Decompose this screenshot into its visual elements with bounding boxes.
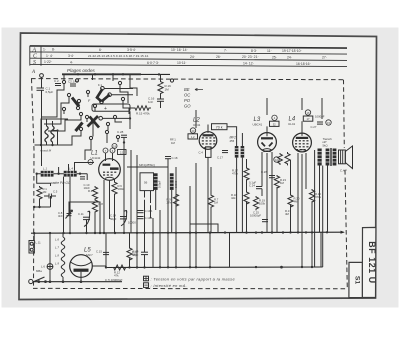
svg-text:4M: 4M bbox=[294, 200, 299, 204]
svg-text:8·: 8· bbox=[52, 47, 55, 51]
svg-text:GO: GO bbox=[184, 104, 191, 109]
junction dots on switch bar bbox=[77, 73, 160, 76]
wire L4 top column bbox=[301, 98, 303, 110]
svg-text:PO: PO bbox=[184, 98, 191, 103]
svg-text:1M: 1M bbox=[214, 201, 219, 205]
title box S1 bbox=[349, 262, 362, 297]
capacitor C20 bbox=[138, 217, 144, 219]
switch contact field bbox=[62, 79, 173, 140]
wire x168 column bbox=[167, 159, 169, 233]
capacitor C10 bbox=[80, 177, 85, 179]
wire MF1 right pin bbox=[150, 191, 152, 203]
wire C11 frame bbox=[69, 202, 100, 233]
svg-text:20: 20 bbox=[192, 129, 195, 133]
svg-text:A: A bbox=[32, 47, 37, 53]
tube L1 anode A bbox=[103, 164, 111, 166]
capacitor C19 bbox=[138, 211, 144, 213]
svg-text:1·: 1· bbox=[43, 47, 46, 51]
mains terminal bbox=[29, 279, 33, 283]
resistor R1 bbox=[37, 186, 42, 200]
transformer core bbox=[329, 148, 331, 166]
wire L3 cathode down bbox=[266, 153, 268, 233]
MF2 coil bars bbox=[235, 146, 244, 158]
pilot lamp bbox=[47, 264, 53, 270]
resistor R19 bbox=[253, 196, 258, 210]
svg-text:Amod M: Amod M bbox=[39, 149, 52, 153]
trimmer C14 bbox=[120, 210, 127, 226]
svg-text:S1: S1 bbox=[354, 276, 361, 285]
svg-text:L.7: L.7 bbox=[55, 246, 59, 250]
mains switch lever bbox=[34, 277, 45, 282]
svg-text:C.28: C.28 bbox=[117, 130, 124, 134]
tube L2 anode bbox=[203, 134, 214, 136]
note icon 1 bbox=[144, 276, 149, 281]
capacitor C28 bbox=[121, 135, 127, 152]
wire C15 column bbox=[105, 244, 107, 252]
resistor R16 bbox=[158, 80, 163, 95]
switch wiper 4 bbox=[76, 123, 83, 132]
svg-text:24·: 24· bbox=[190, 55, 195, 59]
tube L2 envelope bbox=[199, 132, 217, 150]
svg-text:C.11: C.11 bbox=[78, 212, 84, 216]
wire x262 lower bbox=[261, 189, 263, 196]
wire MF2 coil A down bbox=[236, 158, 238, 233]
wire R23 column bbox=[276, 187, 278, 233]
wire transfo prim down bbox=[327, 166, 329, 233]
tube L5 deflector arc bbox=[71, 262, 92, 266]
resistor R25 bbox=[278, 153, 283, 165]
svg-text:MBa: MBa bbox=[36, 269, 42, 273]
svg-text:L.11: L.11 bbox=[36, 241, 42, 245]
bottom-left mains wire bbox=[33, 281, 122, 283]
tube L3 cathode bbox=[263, 149, 272, 150]
boxed 17 bbox=[303, 116, 313, 121]
rule under row S bbox=[30, 64, 347, 66]
svg-text:F.1: F.1 bbox=[98, 83, 102, 87]
wire coil frame bbox=[35, 119, 71, 145]
svg-text:21·22·23·13·28·4·5·9·10·4·6·18: 21·22·23·13·28·4·5·9·10·4·6·18·7·19·15·1… bbox=[88, 54, 149, 58]
svg-text:2,1: 2,1 bbox=[120, 151, 124, 155]
wire coilB bottom bbox=[171, 190, 173, 233]
wire L2 cathode down bbox=[207, 157, 209, 233]
svg-text:C.18: C.18 bbox=[172, 156, 178, 160]
svg-text:25·: 25· bbox=[272, 55, 277, 59]
svg-text:6·0·7·3·: 6·0·7·3· bbox=[147, 61, 159, 65]
capacitor C2.1A bbox=[70, 84, 76, 86]
wire MF1 left pin bbox=[144, 191, 146, 198]
svg-text:42k: 42k bbox=[231, 196, 236, 200]
wire transfo mid down bbox=[322, 166, 324, 268]
wire L1 pins up bbox=[105, 153, 107, 161]
svg-text:L.9: L.9 bbox=[55, 262, 59, 266]
wire L4 anode up bbox=[301, 121, 303, 136]
svg-text:L.1: L.1 bbox=[43, 166, 47, 170]
boxed 1,2 bbox=[188, 134, 198, 139]
wire x314 column bbox=[314, 150, 316, 267]
svg-text:3nF: 3nF bbox=[58, 214, 63, 218]
junction dot heater bbox=[62, 280, 65, 283]
resistor R18 bbox=[244, 191, 249, 205]
svg-text:C.5: C.5 bbox=[53, 190, 58, 194]
svg-text:10· 16· 14·: 10· 16· 14· bbox=[171, 48, 188, 52]
svg-text:10000: 10000 bbox=[128, 221, 136, 225]
wire C26 column bbox=[271, 164, 273, 176]
table label divider bbox=[40, 46, 42, 66]
svg-text:50pF: 50pF bbox=[110, 217, 117, 221]
wire R1 bottom node bbox=[34, 206, 50, 208]
svg-text:10: 10 bbox=[275, 158, 278, 162]
wire coilA bottom bbox=[155, 190, 157, 210]
cadre top wires bbox=[37, 163, 94, 187]
svg-text:100k: 100k bbox=[118, 187, 125, 191]
wire L5 stem bbox=[80, 272, 82, 282]
wire L3 left pin down bbox=[261, 152, 263, 187]
svg-text:R.15 470k: R.15 470k bbox=[136, 112, 150, 116]
capacitor C5 bbox=[44, 194, 56, 199]
svg-text:455: 455 bbox=[230, 139, 235, 143]
circled 20 bbox=[190, 128, 195, 133]
wire R6 bottom bbox=[114, 196, 116, 233]
wire R14 column bbox=[129, 233, 131, 247]
resistor R24 bbox=[285, 152, 290, 165]
wire L1 pin1 bbox=[103, 180, 105, 233]
svg-text:1M: 1M bbox=[133, 253, 138, 257]
svg-text:1M: 1M bbox=[165, 88, 170, 92]
capacitor C2 bbox=[55, 84, 61, 86]
earth socket bbox=[29, 241, 34, 254]
wire x137 column bbox=[136, 155, 138, 267]
tube L1 anode B bbox=[110, 167, 119, 170]
switch wiper 3 bbox=[90, 117, 100, 128]
tube L3 anode bbox=[261, 137, 273, 139]
svg-text:R.8: R.8 bbox=[99, 202, 104, 206]
svg-text:0,5µF: 0,5µF bbox=[46, 90, 54, 94]
circled 7 bbox=[103, 148, 108, 153]
svg-text:100pF: 100pF bbox=[158, 180, 162, 188]
oscillator coil La bbox=[45, 126, 48, 142]
svg-text:1000pF: 1000pF bbox=[315, 115, 325, 119]
ground rect right riser wire bbox=[320, 232, 322, 267]
switch wiper 1 bbox=[72, 98, 79, 107]
svg-text:: Tension en volts par ra: : Tension en volts par rapport à la mass… bbox=[151, 277, 236, 282]
svg-text:C.HP: C.HP bbox=[340, 169, 347, 173]
note icon 2 bbox=[144, 283, 149, 288]
tube L4 cathode bbox=[298, 150, 307, 151]
circled 6 bbox=[110, 148, 115, 153]
svg-text:C.17: C.17 bbox=[217, 156, 223, 160]
svg-text:19·17·18·10·: 19·17·18·10· bbox=[282, 49, 302, 53]
svg-text:+: + bbox=[104, 106, 107, 112]
oscillator coil Lb bbox=[51, 126, 54, 142]
resistor R23 bbox=[274, 175, 279, 189]
svg-text:14· 12·: 14· 12· bbox=[243, 62, 254, 66]
trimmer C12 bbox=[66, 210, 73, 219]
resistor R20 bbox=[288, 194, 293, 208]
resistor R6 bbox=[112, 181, 117, 197]
svg-text:10·11·: 10·11· bbox=[177, 61, 187, 65]
wire x153 column bbox=[152, 218, 154, 267]
boxed 70k bbox=[212, 124, 228, 130]
wire 70k box to MF2 bbox=[227, 127, 237, 146]
svg-text:3·4·: 3·4· bbox=[68, 54, 74, 58]
wire L3 right pin down bbox=[271, 152, 273, 233]
tube L1 cathode bbox=[105, 177, 114, 178]
svg-text:C.4: C.4 bbox=[199, 151, 204, 155]
resistor R12 bbox=[112, 265, 127, 270]
trimmer C13 bbox=[83, 211, 90, 227]
tube L1 grid bbox=[103, 172, 116, 176]
tube L5 target bar bbox=[74, 269, 89, 272]
wire cadre right down bbox=[69, 177, 71, 233]
tube L4 anode bbox=[296, 137, 308, 139]
resistor R7 bbox=[208, 194, 213, 209]
cadre junction dots bbox=[36, 173, 38, 175]
circled 4 bbox=[88, 160, 93, 165]
junction dot L5 stem bbox=[80, 280, 83, 283]
chassis dashed right edge upper bbox=[343, 80, 346, 148]
junction dots on ground bus bbox=[105, 266, 313, 269]
svg-text:L.8: L.8 bbox=[55, 254, 59, 258]
heater coil L6-L9 bbox=[61, 237, 65, 277]
wire L2 anode up bbox=[207, 125, 209, 133]
switch wiring mesh bbox=[42, 75, 138, 161]
svg-text:10000pF: 10000pF bbox=[250, 214, 261, 218]
svg-text:BF 121 U: BF 121 U bbox=[367, 241, 377, 283]
cadre through wire bbox=[37, 173, 87, 175]
wire R6 top bbox=[114, 179, 116, 181]
wire L2 top column bbox=[195, 110, 197, 128]
wire MF2 coil B down bbox=[241, 158, 243, 233]
resistor R14 bbox=[127, 247, 132, 261]
circled 4 bbox=[272, 115, 277, 120]
MF1 coil bar B bbox=[170, 173, 174, 190]
svg-text:C.2: C.2 bbox=[54, 79, 59, 83]
tube L4 grid bbox=[295, 140, 309, 150]
wire to MF1 bbox=[127, 166, 168, 168]
svg-text:OC: OC bbox=[184, 93, 191, 98]
ground rect left riser wire bbox=[229, 233, 231, 267]
svg-text:26·: 26· bbox=[216, 55, 221, 59]
circled 10 bbox=[274, 157, 279, 162]
resistor R9 bbox=[173, 193, 178, 208]
svg-text:UBC41: UBC41 bbox=[253, 123, 263, 127]
svg-text:1M: 1M bbox=[43, 190, 48, 194]
tube L1 envelope bbox=[99, 159, 121, 181]
svg-text:47k: 47k bbox=[114, 274, 119, 278]
svg-text:11·: 11· bbox=[267, 49, 272, 53]
boxed 32 bbox=[270, 121, 280, 126]
circled 15 bbox=[326, 120, 331, 125]
title box BF 121 U bbox=[362, 227, 376, 297]
wire R9 column bbox=[175, 167, 177, 193]
wire antenna column bbox=[41, 98, 43, 166]
svg-text:C.19B: C.19B bbox=[145, 216, 153, 220]
svg-text:8·3·: 8·3· bbox=[251, 49, 257, 53]
svg-text:24·: 24· bbox=[287, 55, 292, 59]
capacitor C18 bbox=[165, 157, 171, 159]
svg-text:70 k: 70 k bbox=[216, 125, 223, 129]
capacitor C7 bbox=[141, 233, 148, 267]
svg-text:1·22·: 1·22· bbox=[44, 60, 52, 64]
svg-text:cadre PO GO: cadre PO GO bbox=[51, 181, 71, 185]
tube L2 grid bbox=[202, 137, 216, 144]
tube L2 cathode bbox=[204, 147, 213, 148]
MF1 coil bar A bbox=[154, 173, 158, 190]
chassis dashed bottom edge bbox=[33, 287, 347, 289]
wire L3 top column bbox=[266, 98, 268, 115]
capacitor C24 bbox=[256, 187, 262, 189]
svg-text:470k: 470k bbox=[315, 195, 322, 199]
svg-text:1M: 1M bbox=[280, 181, 285, 185]
svg-text:BE: BE bbox=[184, 87, 190, 92]
resistor R17 bbox=[244, 167, 249, 181]
tube L4 envelope bbox=[293, 133, 312, 152]
selector box bbox=[92, 104, 130, 111]
chassis dashed top edge bbox=[31, 79, 344, 80]
wire x190 column bbox=[189, 186, 191, 267]
wire heater coil top bbox=[62, 233, 64, 237]
svg-text:6·: 6· bbox=[99, 48, 102, 52]
wire L4 left pin down bbox=[297, 153, 299, 233]
row A tick numbers bbox=[43, 47, 302, 53]
svg-text:56: 56 bbox=[144, 181, 148, 185]
svg-text:15: 15 bbox=[327, 121, 330, 125]
MF1 box bbox=[140, 173, 154, 191]
wire R20 column bbox=[290, 160, 292, 194]
top bus wire bbox=[141, 73, 170, 75]
svg-text:7·: 7· bbox=[224, 49, 227, 53]
svg-text:100k: 100k bbox=[259, 202, 266, 206]
svg-text:1,2: 1,2 bbox=[191, 135, 195, 139]
cadre coil group 2 bbox=[64, 171, 77, 177]
table left edge bbox=[29, 46, 31, 66]
wire jog bbox=[190, 224, 218, 233]
transformer secondary bar bbox=[333, 149, 337, 166]
junction dot lamp bbox=[49, 280, 52, 283]
switch wiper 2 bbox=[97, 89, 102, 102]
transformer primary bar bbox=[326, 149, 330, 166]
wire choke down bbox=[319, 166, 321, 233]
switch extra wires bbox=[64, 94, 122, 142]
table top rule bbox=[30, 46, 347, 48]
svg-text:Plages ondes: Plages ondes bbox=[67, 68, 96, 73]
capacitor C17 bbox=[222, 151, 228, 153]
svg-text:UL41: UL41 bbox=[288, 122, 296, 126]
svg-text:470k: 470k bbox=[232, 172, 239, 176]
resistor R10 bbox=[309, 189, 314, 203]
HT bus wire bbox=[31, 232, 344, 233]
circled 16 bbox=[305, 110, 310, 115]
svg-text:1M: 1M bbox=[171, 141, 176, 145]
ground bus wire bbox=[106, 266, 323, 269]
svg-text:UCH42: UCH42 bbox=[91, 156, 101, 160]
page border frame bbox=[19, 33, 377, 300]
chassis dashed right edge lower bbox=[345, 170, 347, 289]
tube L3 diode plates bbox=[262, 143, 266, 147]
svg-text:4·: 4· bbox=[70, 60, 73, 64]
svg-text:18: 18 bbox=[113, 144, 116, 148]
wire antenna down bbox=[41, 77, 43, 87]
wire R16 top to bus bbox=[160, 74, 162, 80]
svg-text:C.5 10000pF: C.5 10000pF bbox=[105, 278, 123, 282]
junction dots on HT bus bbox=[33, 231, 328, 234]
svg-text:1· 4·: 1· 4· bbox=[46, 54, 53, 58]
wire x196 column bbox=[195, 163, 197, 267]
wire lamp column bbox=[49, 233, 51, 264]
wire R17-R18 link bbox=[246, 159, 248, 167]
wire L3 anode up bbox=[266, 126, 268, 136]
svg-text:16·18·16·: 16·18·16· bbox=[296, 62, 311, 66]
wire x322 top column bbox=[321, 98, 323, 119]
wire L4 cathode down bbox=[301, 154, 303, 267]
svg-text:L.4: L.4 bbox=[69, 166, 73, 170]
svg-text:20· 23· 21·: 20· 23· 21· bbox=[242, 55, 259, 59]
svg-text:27k: 27k bbox=[167, 201, 172, 205]
electrolytic C4 under L2 bbox=[206, 147, 212, 158]
capacitor C16 bbox=[157, 94, 164, 108]
wire x176 column bbox=[175, 190, 177, 267]
speaker cone bbox=[345, 146, 352, 169]
row S tick numbers bbox=[44, 60, 311, 66]
svg-text:UF41: UF41 bbox=[193, 123, 201, 127]
svg-text:32: 32 bbox=[273, 122, 276, 126]
tube L5 envelope bbox=[70, 255, 93, 278]
wire cadre mid down bbox=[63, 177, 65, 233]
wire x210 lower bbox=[209, 233, 211, 267]
svg-text:C.19A: C.19A bbox=[145, 209, 153, 213]
svg-text:C: C bbox=[33, 54, 37, 60]
svg-text:3·5·4·: 3·5·4· bbox=[127, 48, 136, 52]
wire R15 to L1 area bbox=[129, 108, 133, 114]
svg-text:L.6: L.6 bbox=[55, 238, 59, 242]
svg-text:1nF: 1nF bbox=[148, 100, 153, 104]
tube L3 envelope bbox=[258, 133, 277, 152]
svg-text:; Intensité en mA.: ; Intensité en mA. bbox=[151, 283, 188, 288]
rule under row C bbox=[30, 58, 347, 60]
svg-text:MF1(455kc): MF1(455kc) bbox=[139, 163, 155, 167]
row C tick numbers bbox=[46, 54, 327, 60]
capacitor C15 bbox=[103, 252, 109, 254]
speaker magnet bbox=[339, 150, 346, 164]
boxed 2,1 bbox=[118, 150, 127, 155]
resistor R8 bbox=[92, 186, 97, 200]
resistor R15 bbox=[133, 106, 151, 110]
wire L4 right pin down bbox=[305, 153, 307, 189]
svg-text:17: 17 bbox=[307, 117, 310, 121]
capacitor C27 bbox=[317, 122, 323, 124]
switch bar wire bbox=[62, 73, 141, 75]
capacitor C1 bbox=[37, 88, 45, 98]
wire x168 lower bbox=[167, 233, 169, 267]
wire x160 column bbox=[159, 210, 161, 267]
antenna terminal bbox=[40, 74, 44, 78]
wire L5 grid to bus bbox=[92, 265, 106, 267]
junction dot bbox=[123, 141, 125, 143]
wire L1 pin2 bbox=[109, 180, 111, 219]
svg-text:C.15: C.15 bbox=[96, 250, 102, 254]
wire heater coil bottom bbox=[62, 277, 64, 282]
svg-text:4M: 4M bbox=[285, 212, 290, 216]
capacitor C26 bbox=[269, 176, 275, 178]
choke coil bar bbox=[318, 149, 322, 166]
svg-text:S: S bbox=[33, 60, 36, 66]
svg-text:C.27: C.27 bbox=[311, 125, 317, 129]
wire x131 column bbox=[130, 150, 132, 233]
svg-text:27·: 27· bbox=[322, 56, 327, 60]
svg-text:5kΩ: 5kΩ bbox=[323, 143, 328, 147]
wire C28 column bbox=[123, 152, 125, 233]
chassis dashed left edge bbox=[32, 79, 35, 288]
